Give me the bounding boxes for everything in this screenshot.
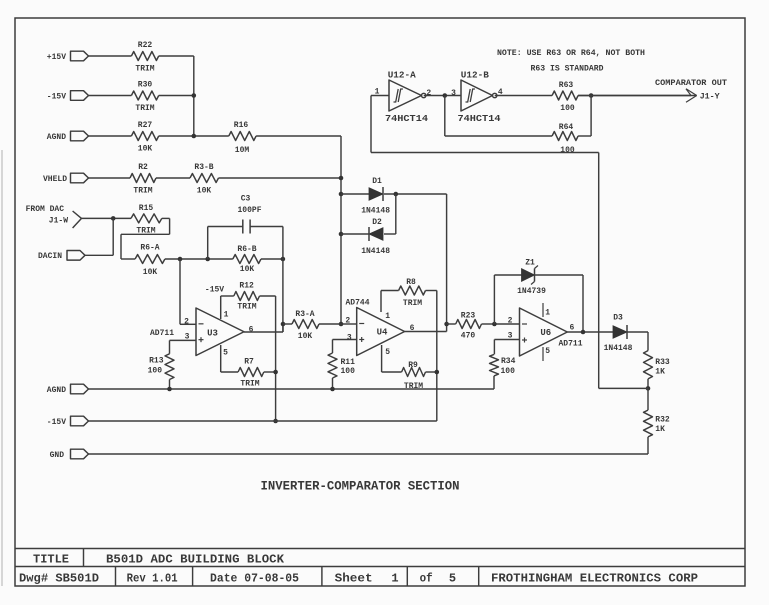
svg-text:74HCT14: 74HCT14	[385, 113, 428, 124]
svg-text:R3-B: R3-B	[194, 163, 213, 172]
svg-text:R32: R32	[655, 416, 670, 425]
svg-text:R16: R16	[234, 121, 249, 130]
svg-text:R6-B: R6-B	[237, 245, 256, 254]
svg-text:U6: U6	[540, 328, 551, 338]
svg-text:TITLE: TITLE	[33, 552, 69, 566]
svg-text:R12: R12	[239, 282, 254, 291]
svg-text:R6-A: R6-A	[140, 244, 159, 253]
svg-text:2: 2	[426, 89, 431, 98]
svg-text:R63: R63	[559, 81, 574, 90]
svg-text:1N4148: 1N4148	[604, 344, 633, 353]
svg-text:5: 5	[223, 348, 228, 357]
svg-text:10K: 10K	[138, 144, 153, 153]
svg-text:R30: R30	[138, 81, 153, 90]
svg-text:AGND: AGND	[47, 386, 66, 395]
svg-text:3: 3	[347, 334, 352, 343]
svg-text:R33: R33	[655, 358, 670, 367]
svg-text:-15V: -15V	[205, 286, 224, 295]
svg-text:U3: U3	[207, 328, 218, 338]
svg-text:D3: D3	[613, 314, 623, 323]
svg-text:TRIM: TRIM	[135, 104, 154, 113]
svg-text:NOTE: USE R63 OR R64, NOT BOTH: NOTE: USE R63 OR R64, NOT BOTH	[497, 48, 645, 58]
svg-text:100PF: 100PF	[237, 206, 261, 215]
svg-text:C3: C3	[241, 195, 251, 204]
svg-text:D2: D2	[372, 218, 382, 227]
svg-text:B501D ADC BUILDING BLOCK: B501D ADC BUILDING BLOCK	[106, 552, 285, 566]
svg-text:3: 3	[451, 89, 456, 98]
svg-text:5: 5	[385, 348, 390, 357]
svg-text:2: 2	[184, 318, 189, 327]
svg-text:U4: U4	[377, 328, 388, 338]
svg-text:AD711: AD711	[558, 340, 582, 349]
svg-text:TRIM: TRIM	[403, 299, 422, 308]
svg-text:1N4739: 1N4739	[517, 287, 546, 296]
svg-text:R9: R9	[408, 361, 418, 370]
svg-text:R63 IS STANDARD: R63 IS STANDARD	[531, 64, 604, 74]
svg-text:74HCT14: 74HCT14	[458, 113, 501, 124]
svg-text:1: 1	[545, 308, 550, 317]
svg-text:J1-Y: J1-Y	[700, 92, 721, 102]
svg-text:AD744: AD744	[345, 299, 369, 308]
svg-text:of: of	[420, 572, 433, 586]
svg-text:R8: R8	[406, 278, 416, 287]
svg-text:Z1: Z1	[525, 258, 535, 267]
svg-text:COMPARATOR OUT: COMPARATOR OUT	[655, 78, 727, 88]
svg-text:R11: R11	[341, 358, 356, 367]
svg-text:10K: 10K	[197, 186, 212, 195]
svg-text:U12-A: U12-A	[388, 70, 416, 81]
svg-text:TRIM: TRIM	[240, 379, 259, 388]
svg-text:1N4148: 1N4148	[361, 207, 390, 216]
svg-text:1N4148: 1N4148	[361, 247, 390, 256]
svg-text:AGND: AGND	[47, 133, 66, 142]
svg-text:2: 2	[508, 316, 513, 325]
svg-text:TRIM: TRIM	[135, 64, 154, 73]
svg-text:10M: 10M	[235, 146, 250, 155]
svg-text:R15: R15	[139, 204, 154, 213]
svg-text:100: 100	[560, 104, 575, 113]
svg-text:J1-W: J1-W	[49, 216, 68, 225]
svg-text:TRIM: TRIM	[237, 302, 256, 311]
svg-text:R13: R13	[149, 356, 164, 365]
svg-text:D1: D1	[372, 177, 382, 186]
svg-text:TRIM: TRIM	[404, 382, 423, 391]
svg-text:10K: 10K	[298, 332, 313, 341]
svg-text:1K: 1K	[655, 368, 665, 377]
svg-text:2: 2	[345, 317, 350, 326]
svg-text:-15V: -15V	[47, 418, 66, 427]
svg-text:Sheet: Sheet	[335, 572, 373, 586]
svg-text:R64: R64	[559, 123, 574, 132]
svg-text:R27: R27	[138, 121, 153, 130]
svg-text:10K: 10K	[143, 268, 158, 277]
svg-text:5: 5	[545, 347, 550, 356]
svg-text:GND: GND	[50, 451, 65, 460]
svg-text:FROTHINGHAM ELECTRONICS CORP: FROTHINGHAM ELECTRONICS CORP	[491, 572, 698, 586]
svg-text:Date 07-08-05: Date 07-08-05	[210, 572, 299, 586]
svg-text:1: 1	[385, 312, 390, 321]
svg-text:100: 100	[560, 146, 575, 155]
svg-text:AD711: AD711	[150, 329, 174, 338]
svg-text:1: 1	[391, 572, 398, 586]
svg-text:INVERTER-COMPARATOR SECTION: INVERTER-COMPARATOR SECTION	[261, 480, 460, 494]
svg-text:R34: R34	[501, 357, 516, 366]
svg-text:1: 1	[224, 311, 229, 320]
svg-text:470: 470	[461, 331, 476, 340]
svg-text:+15V: +15V	[47, 53, 66, 62]
svg-text:-15V: -15V	[47, 92, 66, 101]
svg-text:Dwg# SB501D: Dwg# SB501D	[19, 572, 99, 586]
svg-text:R23: R23	[461, 311, 476, 320]
svg-text:DACIN: DACIN	[38, 252, 62, 261]
svg-text:U12-B: U12-B	[461, 70, 489, 81]
svg-text:TRIM: TRIM	[133, 186, 152, 195]
svg-text:100: 100	[148, 367, 163, 376]
svg-text:R2: R2	[138, 163, 148, 172]
svg-text:Rev 1.01: Rev 1.01	[127, 572, 178, 586]
svg-text:6: 6	[249, 325, 254, 334]
svg-text:R7: R7	[244, 357, 254, 366]
svg-text:R22: R22	[138, 41, 153, 50]
svg-text:100: 100	[341, 367, 356, 376]
svg-text:VHELD: VHELD	[43, 175, 67, 184]
svg-text:FROM DAC: FROM DAC	[26, 205, 65, 214]
svg-text:1K: 1K	[655, 425, 665, 434]
svg-text:100: 100	[501, 367, 516, 376]
svg-text:5: 5	[449, 572, 456, 586]
svg-text:10K: 10K	[240, 265, 255, 274]
svg-text:R3-A: R3-A	[295, 310, 314, 319]
